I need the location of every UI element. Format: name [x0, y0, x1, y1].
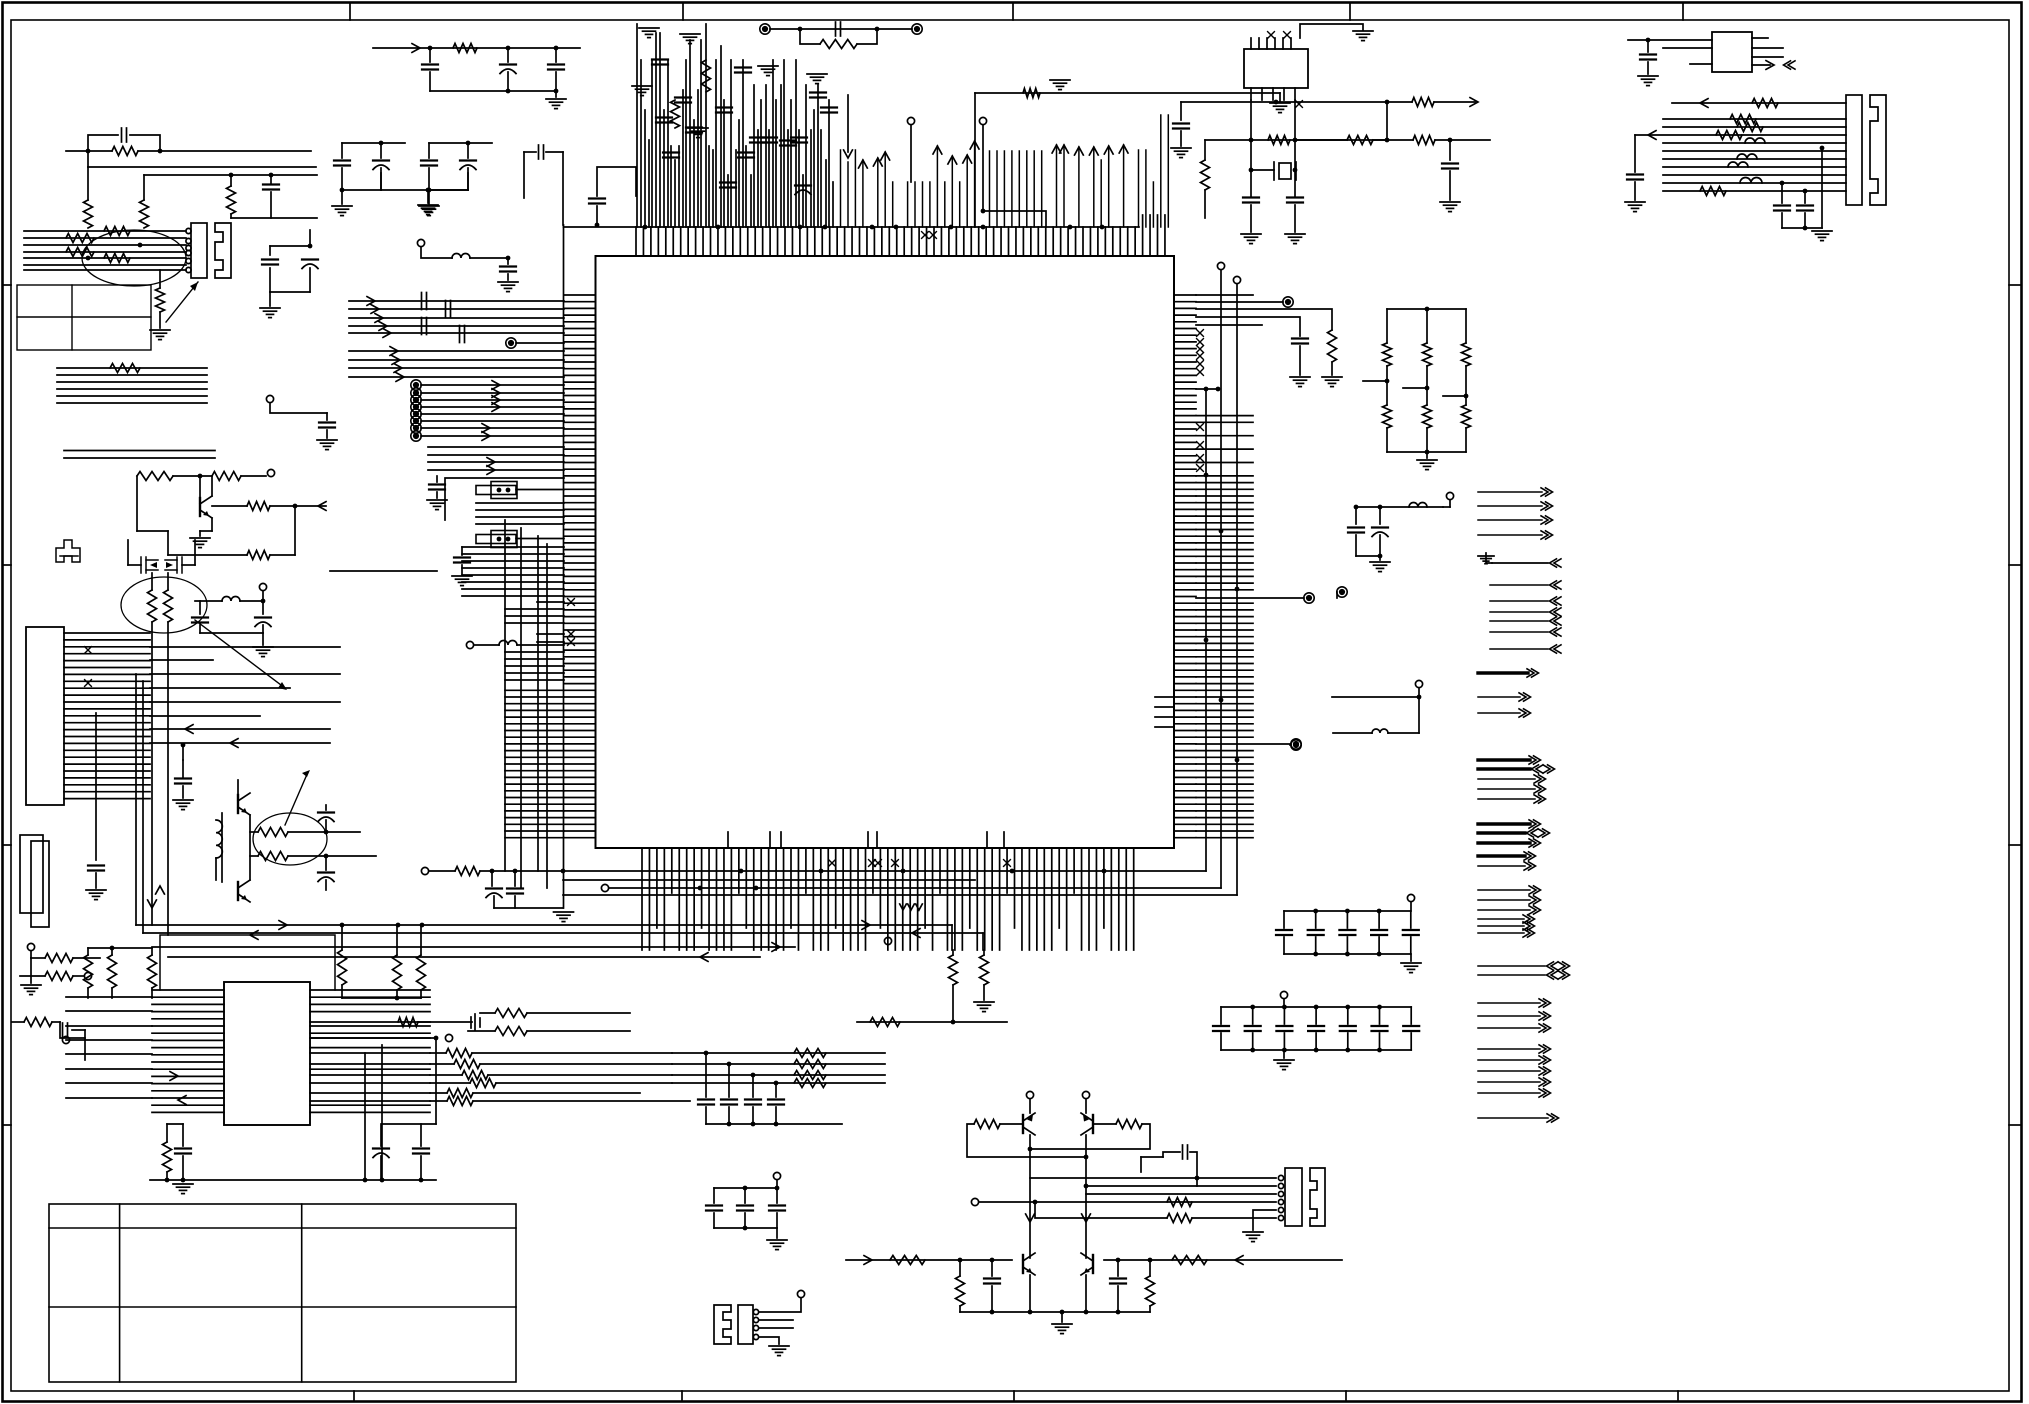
wire	[1356, 506, 1443, 508]
wire	[421, 427, 564, 429]
wire	[1299, 346, 1301, 375]
wire	[1410, 954, 1412, 961]
wire	[166, 1124, 168, 1142]
wire	[537, 601, 564, 603]
resistor R3	[112, 147, 138, 156]
resistor R62	[495, 1009, 527, 1018]
wire	[199, 476, 201, 498]
arrow	[250, 931, 258, 940]
wire signal	[1490, 584, 1548, 586]
junction	[1033, 1200, 1038, 1205]
pin	[186, 258, 191, 263]
junction	[1377, 1005, 1382, 1010]
wire	[1663, 126, 1846, 128]
arrow	[1648, 131, 1656, 140]
terminal	[411, 380, 421, 390]
wire	[262, 601, 264, 614]
capacitor C31	[1348, 528, 1364, 533]
capacitor C22	[1292, 339, 1308, 344]
junction	[497, 488, 502, 493]
wire	[88, 166, 316, 168]
wire	[555, 72, 557, 91]
junction	[1282, 1048, 1287, 1053]
wire	[1085, 1099, 1087, 1113]
wire	[250, 831, 258, 833]
wire	[52, 1021, 60, 1023]
no-connect	[1296, 101, 1303, 108]
resistor R49	[84, 955, 93, 988]
wire	[1141, 1156, 1163, 1158]
capacitor bank 1 C	[1371, 930, 1387, 935]
wire	[474, 644, 499, 646]
wire	[1294, 100, 1296, 141]
wire	[1363, 380, 1387, 382]
wire	[473, 1100, 690, 1102]
wire	[1373, 139, 1413, 141]
wire signal	[1478, 831, 1525, 834]
wire	[1196, 309, 1332, 330]
no-connect	[930, 232, 937, 239]
junction	[1250, 1005, 1255, 1010]
capacitor C11b	[686, 128, 702, 133]
chevron	[1519, 709, 1531, 717]
junction	[1028, 1310, 1033, 1315]
junction	[819, 869, 824, 874]
arrow	[371, 305, 379, 314]
wire	[1331, 362, 1333, 375]
ground	[1638, 76, 1658, 86]
arrow	[394, 364, 402, 373]
chevron	[1550, 617, 1562, 625]
wire	[1251, 169, 1274, 171]
resistor R43	[870, 1018, 900, 1027]
chevron	[1547, 971, 1559, 979]
junction	[958, 1258, 963, 1263]
wire	[1086, 1185, 1276, 1187]
junction	[1116, 1310, 1121, 1315]
ground	[1417, 460, 1437, 470]
junction	[1448, 138, 1453, 143]
arrow down	[844, 150, 853, 158]
bundle ellipse 3	[253, 813, 327, 865]
arrow	[390, 347, 398, 356]
wire	[262, 625, 264, 633]
wire	[1752, 64, 1770, 66]
wire	[1386, 102, 1388, 140]
capacitor C19	[446, 301, 451, 318]
arrow up	[1104, 146, 1113, 154]
wire	[330, 570, 437, 572]
junction	[419, 1178, 424, 1183]
wire	[523, 152, 525, 198]
wire signal	[1490, 620, 1548, 622]
junction	[1803, 226, 1808, 231]
wire	[1315, 1033, 1317, 1050]
wire	[380, 1124, 382, 1146]
junction	[181, 1178, 186, 1183]
terminal	[1407, 894, 1414, 901]
wire	[1378, 937, 1380, 954]
chevron	[1558, 962, 1570, 970]
wire	[421, 406, 564, 408]
resistor R41	[949, 955, 958, 985]
chevron	[1527, 829, 1539, 837]
wire	[230, 175, 232, 186]
wire	[1379, 1007, 1381, 1024]
junction	[340, 188, 345, 193]
wire	[294, 506, 296, 555]
junction	[775, 1186, 780, 1191]
wire	[269, 292, 271, 306]
wire	[151, 622, 153, 925]
wire	[95, 713, 97, 860]
resistor R76	[1172, 1256, 1207, 1265]
wire	[1284, 953, 1411, 955]
arrow	[156, 886, 165, 894]
junction	[1464, 394, 1469, 399]
wire	[1029, 1275, 1031, 1312]
wire	[88, 947, 152, 949]
arrow	[412, 44, 420, 53]
junction	[743, 1186, 748, 1191]
wire	[381, 1045, 383, 1180]
wire	[435, 1038, 437, 1124]
wire	[462, 581, 564, 583]
wire	[1663, 174, 1846, 176]
no-connect	[85, 647, 92, 654]
capacitor C57	[486, 889, 502, 898]
wire	[1035, 1202, 1167, 1218]
terminal	[267, 469, 274, 476]
wire	[111, 988, 113, 998]
wire	[952, 985, 954, 1022]
wire	[1690, 63, 1712, 65]
capacitor C42	[413, 1149, 429, 1154]
connector J3 pin wires	[64, 633, 150, 799]
arrow	[185, 725, 193, 734]
U1 right pin stubs	[1174, 295, 1196, 838]
wire	[1449, 500, 1451, 507]
resistor R75	[1146, 1276, 1155, 1306]
wire	[1252, 1007, 1254, 1024]
wire	[1410, 902, 1412, 911]
resistor R65	[794, 1049, 826, 1058]
arrow up	[948, 156, 957, 164]
pin	[186, 267, 191, 272]
arrow	[864, 1256, 872, 1265]
resistor R8	[66, 248, 94, 257]
wire signal	[1478, 798, 1535, 800]
wire signal	[1478, 1070, 1540, 1072]
inductor L5	[1740, 178, 1762, 184]
wire	[1283, 937, 1285, 954]
junction	[554, 46, 559, 51]
wire	[144, 174, 317, 176]
no-connect	[869, 860, 876, 867]
wire	[211, 518, 213, 531]
wire	[505, 615, 564, 617]
wire signal	[1490, 631, 1548, 633]
arrow	[383, 329, 391, 338]
wire legs mid	[1387, 366, 1466, 405]
connector J2	[1846, 95, 1886, 205]
wire	[428, 143, 430, 158]
arrow up	[933, 146, 942, 154]
wire	[516, 538, 564, 540]
junction	[138, 243, 143, 248]
wire	[1290, 744, 1291, 746]
wire	[1030, 1124, 1150, 1149]
wire	[705, 1107, 707, 1124]
chevron	[1523, 915, 1535, 923]
table block	[17, 285, 151, 350]
crystal Y1	[1274, 162, 1296, 180]
wire	[1220, 1007, 1222, 1024]
wire bus right of U1	[1206, 270, 1237, 895]
no-connect	[568, 631, 575, 638]
resistor R26	[1201, 160, 1210, 190]
capacitor bank 1 C	[1308, 930, 1324, 935]
wire	[420, 1124, 422, 1146]
no-connect	[1197, 361, 1204, 368]
wire	[269, 246, 271, 255]
wire verticals with arrows above U1	[840, 150, 842, 227]
wire signal	[1478, 1015, 1540, 1017]
terminal	[971, 1198, 978, 1205]
wire	[349, 325, 564, 327]
wire	[436, 492, 438, 498]
wire signal	[1478, 505, 1542, 507]
ground	[1241, 234, 1261, 244]
wire	[1804, 191, 1806, 203]
resistor R38	[1383, 405, 1392, 428]
wire	[1029, 1135, 1031, 1258]
wire signal	[1490, 611, 1548, 613]
terminal	[466, 641, 473, 648]
wire	[152, 946, 795, 948]
resistor R10	[104, 254, 130, 263]
wire signal	[1478, 865, 1525, 867]
wire	[744, 1213, 746, 1228]
resistor R18	[247, 551, 270, 560]
wire	[1378, 911, 1380, 928]
no-connect	[1197, 369, 1204, 376]
wire	[325, 805, 327, 810]
wire	[429, 189, 468, 191]
terminal	[445, 1034, 452, 1041]
chevron	[1541, 488, 1553, 496]
ground	[190, 538, 210, 548]
ground	[498, 282, 518, 292]
capacitor C11	[675, 98, 691, 103]
arrow up	[1119, 145, 1128, 153]
junction	[506, 488, 511, 493]
jack symbol	[471, 1014, 480, 1030]
junction	[1249, 138, 1254, 143]
wire	[505, 608, 564, 610]
wire	[1782, 227, 1822, 229]
wire	[310, 1037, 436, 1039]
junction	[716, 225, 721, 230]
junction	[1274, 100, 1279, 105]
junction	[506, 256, 511, 261]
terminal	[411, 431, 421, 441]
inductor L8	[222, 597, 240, 602]
chevron	[1524, 862, 1536, 870]
wire	[546, 151, 563, 153]
pin	[1278, 1191, 1283, 1196]
wire	[1449, 171, 1451, 200]
wire	[173, 475, 212, 477]
wire	[24, 257, 186, 259]
wire	[1196, 317, 1300, 336]
wire signal	[1478, 854, 1525, 857]
wire	[420, 925, 422, 955]
no-connect	[875, 860, 882, 867]
wire	[468, 1030, 495, 1032]
junction	[1010, 869, 1015, 874]
capacitor C41	[373, 1149, 389, 1158]
no-connect	[568, 599, 575, 606]
wire	[215, 858, 217, 880]
capacitor C17b	[656, 118, 672, 123]
resistor R4	[84, 200, 93, 228]
arrow	[487, 466, 495, 475]
wire	[342, 997, 421, 999]
junction	[396, 923, 401, 928]
wire	[24, 251, 186, 253]
wire	[66, 150, 112, 152]
wire	[462, 567, 564, 569]
wire	[1283, 1050, 1285, 1058]
wire	[480, 1063, 672, 1065]
wire	[1283, 1033, 1285, 1050]
junction	[1204, 387, 1209, 392]
resistor R23	[1328, 330, 1337, 362]
wire	[249, 815, 251, 880]
wire signal	[1478, 671, 1528, 674]
junction	[981, 209, 986, 214]
chevron	[1534, 795, 1546, 803]
wire	[195, 600, 222, 602]
pin	[753, 1309, 758, 1314]
wire	[200, 530, 212, 532]
wire	[1196, 388, 1218, 390]
arrow	[230, 739, 238, 748]
junction	[751, 1073, 756, 1078]
junction	[1820, 146, 1825, 151]
wire	[342, 189, 381, 191]
resistor R37	[1462, 343, 1471, 366]
junction	[751, 1122, 756, 1127]
wire	[1196, 743, 1291, 745]
terminal	[601, 884, 608, 891]
wire	[507, 258, 509, 264]
wire	[1279, 93, 1281, 101]
ground	[758, 66, 778, 76]
wire	[1140, 1157, 1142, 1172]
polarity key symbol	[56, 540, 80, 562]
capacitor bank 2 C	[1403, 1026, 1419, 1031]
no-connect	[1197, 339, 1204, 346]
terminal	[84, 972, 91, 979]
chevron	[1539, 1089, 1551, 1097]
wire	[380, 143, 382, 158]
no-connect	[1268, 32, 1275, 39]
wire	[309, 230, 311, 246]
capacitor C6	[263, 185, 279, 190]
wire	[462, 588, 564, 590]
capacitor C8	[302, 260, 318, 269]
ground	[688, 128, 708, 138]
inductor L10	[452, 254, 470, 259]
capacitor C28	[1627, 175, 1643, 180]
wire	[84, 1030, 86, 1060]
junction	[506, 46, 511, 51]
wire	[555, 48, 557, 62]
chevron	[1550, 645, 1562, 653]
no-connect	[1197, 455, 1204, 462]
resistor R42	[980, 955, 989, 985]
junction	[1646, 38, 1651, 43]
wire	[505, 658, 564, 660]
capacitor C24	[1243, 198, 1259, 203]
junction	[324, 830, 329, 835]
wire	[24, 230, 186, 232]
wire	[309, 268, 311, 292]
wire	[325, 880, 327, 890]
wire	[421, 435, 564, 437]
wire	[505, 679, 564, 681]
wire	[967, 1124, 1086, 1157]
wire	[150, 728, 330, 730]
wire	[87, 167, 89, 200]
wire	[959, 1260, 961, 1276]
wire signal	[1478, 696, 1520, 698]
junction	[506, 89, 511, 94]
junction	[1425, 307, 1430, 312]
terminal	[411, 402, 421, 412]
wire	[430, 1100, 447, 1102]
inductor L7	[1372, 729, 1388, 733]
terminal TP5	[1304, 593, 1314, 603]
arrow up	[873, 158, 882, 166]
wire	[800, 29, 820, 44]
wire	[30, 951, 32, 958]
resistor R48	[258, 852, 288, 861]
wire	[1250, 100, 1252, 141]
wire	[1104, 1259, 1342, 1261]
wire	[555, 91, 557, 97]
wire	[341, 168, 343, 190]
wire	[1663, 190, 1846, 192]
wire signal	[1478, 899, 1530, 901]
capacitor bank 2 C	[1308, 1026, 1324, 1031]
ground	[1171, 148, 1191, 158]
terminal	[979, 117, 986, 124]
wire signal	[1478, 788, 1535, 790]
ground	[1274, 1060, 1294, 1070]
wire	[728, 1064, 730, 1097]
pin	[1278, 1175, 1283, 1180]
wire	[496, 1082, 672, 1084]
wire	[507, 274, 509, 280]
wire	[1663, 158, 1846, 160]
wire	[428, 469, 564, 471]
wire	[991, 1286, 993, 1312]
wire	[167, 531, 169, 555]
arrow down	[900, 904, 907, 910]
